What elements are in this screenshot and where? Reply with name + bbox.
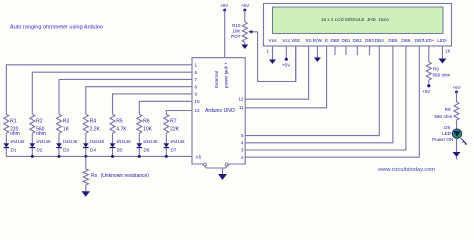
wire R10-to-ground <box>244 42 246 45</box>
svg-text:22K: 22K <box>170 127 180 133</box>
svg-text:POT: POT <box>231 34 241 39</box>
svg-text:DB4: DB4 <box>375 38 384 43</box>
resistor R7 <box>164 114 169 133</box>
svg-text:5: 5 <box>241 133 244 138</box>
svg-text:R5: R5 <box>116 118 123 124</box>
wire D6-to-bus <box>138 148 140 156</box>
ground below Arduino <box>218 174 227 180</box>
wiper arrow of R10 <box>250 31 258 33</box>
svg-text:DB6: DB6 <box>401 38 410 43</box>
svg-text:D7: D7 <box>171 148 177 153</box>
svg-text:560 ohm: 560 ohm <box>433 73 451 78</box>
wire pin-to-R4 rail <box>86 87 192 115</box>
resistor R5 <box>110 114 115 133</box>
resistor R6 <box>137 114 142 133</box>
ground below Vss <box>269 60 276 65</box>
wire R9 down <box>428 80 430 86</box>
wire DB5 to pin 4 <box>245 46 393 143</box>
svg-text:11: 11 <box>239 105 244 110</box>
svg-text:12: 12 <box>238 96 244 101</box>
svg-text:D4: D4 <box>90 148 96 153</box>
wire VEE down <box>295 46 297 82</box>
svg-text:1N4148: 1N4148 <box>36 139 51 144</box>
ground below Rx <box>82 191 91 197</box>
svg-text:R7: R7 <box>170 118 177 124</box>
potentiometer R10 10K POT <box>242 22 247 42</box>
svg-text:16 x 2 LCD MODULE JHD 162A: 16 x 2 LCD MODULE JHD 162A <box>321 17 390 23</box>
resistor Rx (Unknown resistance) <box>83 169 88 185</box>
svg-text:1N4148: 1N4148 <box>89 139 104 144</box>
svg-text:10K: 10K <box>232 29 241 34</box>
stub DB2 <box>356 46 358 55</box>
svg-text:Vss: Vss <box>269 38 278 43</box>
junction node at R5 <box>111 155 114 158</box>
wire pin-to-R5 rail <box>113 94 193 114</box>
wire E to pin 11 <box>245 46 326 108</box>
svg-text:13: 13 <box>195 108 201 113</box>
svg-text:Vcc: Vcc <box>282 38 291 43</box>
svg-text:1N4148: 1N4148 <box>143 139 158 144</box>
Arduino mounting pad left <box>204 163 207 166</box>
wire R3-to-D3 <box>58 133 60 143</box>
wire D2-to-bus <box>31 148 33 156</box>
svg-text:+5V: +5V <box>452 85 461 90</box>
wire DB6 to pin 3 <box>245 46 406 150</box>
wire +9V to power jack <box>224 10 226 58</box>
wire R1-to-D1 <box>5 133 7 143</box>
LCD module box <box>264 4 452 47</box>
LED light arrows <box>461 138 465 142</box>
wire LED- down <box>441 46 443 59</box>
Arduino ground stem <box>222 168 224 174</box>
svg-text:Auto ranging ohmmeter using Ar: Auto ranging ohmmeter using Arduino <box>10 24 103 30</box>
svg-text:2: 2 <box>241 155 244 160</box>
wire +5V to R8 <box>456 92 458 102</box>
svg-text:power jack +: power jack + <box>223 62 228 88</box>
svg-text:www.circuitstoday.com: www.circuitstoday.com <box>378 167 435 173</box>
resistor R8 560 ohm <box>454 102 459 120</box>
junction node at R3 <box>58 155 61 158</box>
svg-text:6: 6 <box>195 70 198 75</box>
LCD display area <box>273 7 444 34</box>
wire pin-to-R6 rail <box>139 101 192 114</box>
svg-text:VEE: VEE <box>291 38 300 43</box>
junction node at R6 <box>138 155 141 158</box>
svg-text:R2: R2 <box>36 118 43 124</box>
svg-text:ohm: ohm <box>36 131 46 137</box>
svg-text:DB1: DB1 <box>342 38 351 43</box>
svg-text:3: 3 <box>241 148 244 153</box>
svg-text:R4: R4 <box>90 118 97 124</box>
stub DB3 <box>369 46 371 55</box>
svg-text:1: 1 <box>267 49 270 54</box>
svg-text:D8: D8 <box>444 125 450 130</box>
wire R2-to-D2 <box>31 133 33 143</box>
junction node at R2 <box>31 155 34 158</box>
wire wiper-to-VEE <box>258 32 296 82</box>
svg-text:R10: R10 <box>232 23 241 28</box>
svg-text:DB0: DB0 <box>331 38 340 43</box>
ground below D8 <box>453 152 461 157</box>
node +5V Vcc <box>285 58 288 61</box>
resistor R4 <box>83 114 88 133</box>
resistor R9 560 ohm <box>426 62 431 80</box>
wire bus-to-Rx <box>85 156 87 169</box>
wire pin-to-R7 rail <box>166 111 192 115</box>
svg-text:D5: D5 <box>117 148 123 153</box>
svg-text:+5V: +5V <box>422 89 431 94</box>
wire D4-to-bus <box>85 148 87 156</box>
wire DB7 to pin 2 <box>245 46 419 157</box>
wire analog bus to A5 <box>6 155 192 157</box>
stub DB1 <box>345 46 347 55</box>
junction node at R7 <box>165 155 168 158</box>
wire R4-to-D4 <box>85 133 87 143</box>
svg-text:RS: RS <box>306 38 312 43</box>
svg-text:LED-: LED- <box>437 38 447 43</box>
svg-text:LED: LED <box>442 131 452 136</box>
svg-text:R9: R9 <box>433 67 439 72</box>
ground below LED- <box>438 59 446 64</box>
svg-text:1N4148: 1N4148 <box>116 139 131 144</box>
wire Vss down <box>272 46 274 60</box>
svg-text:R6: R6 <box>143 118 150 124</box>
svg-text:8: 8 <box>195 84 198 89</box>
svg-text:1N4148: 1N4148 <box>63 139 78 144</box>
Arduino mounting pad right <box>225 163 228 166</box>
svg-text:D6: D6 <box>144 148 150 153</box>
svg-text:16: 16 <box>445 48 450 53</box>
junction node at R4 <box>84 155 87 158</box>
svg-text:1N4148: 1N4148 <box>170 139 185 144</box>
svg-text:R1: R1 <box>10 118 17 124</box>
wire D8 to ground <box>456 139 458 152</box>
svg-text:Arduino UNO: Arduino UNO <box>205 108 235 114</box>
svg-text:D3: D3 <box>63 148 69 153</box>
svg-text:+5V: +5V <box>241 3 250 8</box>
wire R6-to-D6 <box>138 133 140 143</box>
wire R7-to-D7 <box>165 133 167 143</box>
svg-text:R8: R8 <box>445 107 451 112</box>
svg-text:E: E <box>325 38 328 43</box>
node +5V below R9 <box>427 84 430 87</box>
svg-text:+9V: +9V <box>220 3 229 8</box>
svg-text:Power ON: Power ON <box>432 137 453 142</box>
svg-text:10: 10 <box>195 99 201 104</box>
svg-text:R/W: R/W <box>313 38 323 43</box>
wire Rx-to-ground <box>85 185 87 192</box>
wire D5-to-bus <box>112 148 114 156</box>
svg-text:D1: D1 <box>11 148 17 153</box>
svg-text:4.7K: 4.7K <box>116 127 127 133</box>
svg-text:2.2K: 2.2K <box>90 127 101 133</box>
svg-text:DB3: DB3 <box>365 38 374 43</box>
resistor R3 <box>57 114 62 133</box>
Arduino UNO U1 body <box>192 58 245 168</box>
svg-text:1: 1 <box>195 62 198 67</box>
svg-text:(Unknown resistance): (Unknown resistance) <box>101 173 150 179</box>
wire R5-to-D5 <box>112 133 114 143</box>
svg-text:9: 9 <box>195 92 198 97</box>
wire pin-to-R3 rail <box>59 79 192 114</box>
svg-text:1N4148: 1N4148 <box>10 139 25 144</box>
wire D7-to-bus <box>165 148 167 156</box>
svg-text:560 ohm: 560 ohm <box>434 114 452 119</box>
svg-text:A5: A5 <box>196 155 202 160</box>
wire R8 to D8 <box>456 120 458 129</box>
svg-text:DB5: DB5 <box>388 38 397 43</box>
svg-text:R3: R3 <box>63 118 70 124</box>
svg-text:+5V: +5V <box>282 63 291 68</box>
svg-text:LED+: LED+ <box>423 38 434 43</box>
wire +5V to R10 <box>244 10 246 22</box>
svg-text:7: 7 <box>195 77 198 82</box>
wire Vcc down <box>285 46 287 59</box>
wire LED+ down <box>428 46 430 62</box>
resistor R2 <box>30 114 35 133</box>
wire pin-to-R2 rail <box>32 72 192 114</box>
svg-text:10K: 10K <box>143 127 153 133</box>
svg-text:4: 4 <box>241 140 244 145</box>
wire DB4 to pin 5 <box>245 46 379 136</box>
svg-text:ohm: ohm <box>10 131 20 137</box>
wire D1-to-bus <box>5 148 7 156</box>
svg-text:D2: D2 <box>37 148 43 153</box>
svg-text:External: External <box>214 71 219 88</box>
svg-text:Rx: Rx <box>91 173 98 179</box>
wire pin-to-R1 rail <box>6 65 192 114</box>
stub DB0 <box>334 46 336 55</box>
ground below R10 <box>241 45 248 50</box>
wire D3-to-bus <box>58 148 60 156</box>
ground below R/W <box>314 58 321 63</box>
wire R/W down <box>316 46 318 58</box>
wire RS to pin 12 <box>245 46 308 99</box>
svg-text:1K: 1K <box>63 127 70 133</box>
svg-text:DB2: DB2 <box>353 38 362 43</box>
resistor R1 <box>4 114 9 133</box>
